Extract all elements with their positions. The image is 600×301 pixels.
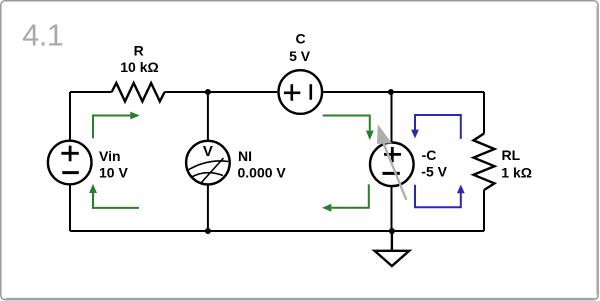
voltage source -C	[370, 143, 414, 187]
wire meter branch lower	[207, 184, 209, 231]
svg-text:R: R	[134, 43, 144, 59]
wire meter branch upper	[207, 92, 209, 141]
svg-text:0.000 V: 0.000 V	[238, 164, 287, 180]
wire top right segment	[323, 91, 484, 93]
voltage source C	[279, 70, 323, 114]
svg-text:5 V: 5 V	[289, 48, 311, 64]
svg-text:V: V	[203, 143, 213, 160]
annotation green mesh-1 arrow bottom	[89, 184, 139, 208]
svg-text:10 V: 10 V	[99, 164, 128, 180]
wire -C branch lower	[391, 186, 393, 231]
annotation green mesh-2 arrow bottom	[322, 184, 369, 211]
voltmeter NI	[186, 141, 230, 185]
resistor R	[112, 83, 165, 101]
wire RL branch upper	[483, 92, 485, 134]
svg-text:1 kΩ: 1 kΩ	[501, 164, 532, 180]
svg-text:Vin: Vin	[99, 148, 121, 164]
wire top-left segment	[70, 91, 112, 93]
wire top middle segment	[165, 91, 278, 93]
annotation green mesh-1 arrow top	[93, 112, 140, 139]
node junction dot bottom (Vin / NI)	[205, 228, 211, 234]
node junction dot top (R / NI / C)	[205, 89, 211, 95]
wire left branch lower	[69, 184, 71, 231]
wire bottom segment	[70, 230, 484, 232]
node junction dot top right (C / -C / RL)	[388, 89, 394, 95]
ground	[375, 231, 410, 266]
annotation green mesh-2 arrow top	[323, 116, 374, 141]
annotation blue mesh-3 arrow top	[411, 115, 461, 139]
wire left branch upper	[69, 92, 71, 141]
resistor RL	[474, 134, 495, 191]
svg-text:10 kΩ: 10 kΩ	[120, 59, 158, 75]
svg-text:4.1: 4.1	[22, 19, 63, 53]
mouse cursor	[377, 124, 406, 200]
wire -C branch upper	[391, 92, 393, 143]
annotation blue mesh-3 arrow bottom	[415, 185, 465, 208]
svg-text:NI: NI	[238, 148, 252, 164]
svg-text:-5 V: -5 V	[421, 164, 447, 180]
svg-text:C: C	[296, 30, 306, 46]
svg-text:-C: -C	[422, 147, 437, 163]
node junction dot bottom (-C / ground)	[389, 228, 395, 234]
wire RL branch lower	[483, 190, 485, 231]
voltage source Vin	[48, 141, 92, 185]
svg-text:RL: RL	[502, 147, 521, 163]
